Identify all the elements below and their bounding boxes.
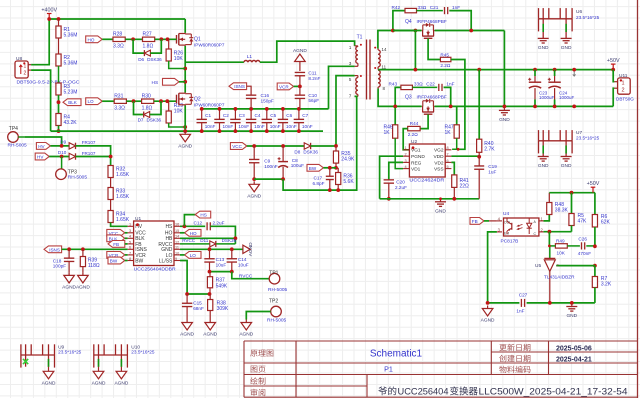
svg-text:RH-5005: RH-5005 [267, 317, 287, 323]
wire half-bridge node [184, 46, 186, 93]
junction TL431 ref row [593, 264, 597, 268]
svg-text:C6: C6 [286, 113, 292, 118]
svg-text:RH-5005: RH-5005 [68, 175, 88, 181]
svg-text:10nF: 10nF [286, 124, 297, 129]
svg-text:10uF: 10uF [238, 262, 249, 267]
svg-text:4: 4 [129, 235, 131, 239]
junction R46 top [394, 105, 397, 108]
svg-text:VD2: VD2 [434, 160, 444, 166]
svg-text:3.2K: 3.2K [601, 282, 612, 288]
capacitor C15 68nF [182, 294, 204, 320]
ground AGND (TP2) [239, 320, 253, 338]
svg-text:U2: U2 [411, 139, 417, 145]
junction diode outputs [109, 155, 113, 159]
svg-text:2: 2 [557, 264, 559, 268]
junction HB [234, 236, 238, 240]
junction VCR node [298, 85, 302, 89]
wire U8 pin 2 return [31, 70, 50, 131]
svg-text:+50V: +50V [607, 58, 620, 64]
wire Q2 source to rail [184, 106, 186, 132]
junction D7 cathode tap [159, 99, 163, 103]
connector U11 [614, 73, 634, 101]
heatsink U7 [539, 130, 600, 156]
svg-text:R27: R27 [143, 32, 152, 38]
junction VG2 node [457, 148, 460, 151]
svg-text:RH-5005: RH-5005 [268, 287, 288, 293]
junction VDD node [477, 155, 481, 159]
svg-text:1nF: 1nF [516, 309, 524, 314]
wire Q4 drain rail [393, 30, 422, 32]
diode D7 DSK36 [134, 101, 162, 122]
diode D10 FR107 [58, 150, 96, 160]
svg-text:VDD: VDD [433, 154, 444, 160]
svg-text:6.8pF: 6.8pF [313, 181, 325, 186]
svg-text:D8: D8 [294, 150, 300, 155]
wire U6 gnd ticks [543, 24, 566, 32]
svg-text:10nF: 10nF [205, 124, 216, 129]
snubber R42 C21 1nF [392, 5, 472, 31]
svg-text:HS: HS [165, 224, 173, 230]
svg-text:1000uF: 1000uF [539, 95, 555, 100]
junction R38 top [208, 292, 212, 296]
resistor R5 47K [569, 213, 587, 232]
svg-text:AGND: AGND [92, 380, 106, 386]
resistor R39 118 [80, 249, 100, 272]
svg-text:LO: LO [88, 99, 95, 104]
capacitor C27 1nF [516, 292, 527, 313]
svg-text:PGND: PGND [411, 154, 425, 160]
wire U4 EM to AGND [488, 232, 497, 303]
power flag +50V (output) [607, 58, 620, 71]
svg-text:U1: U1 [135, 216, 141, 222]
svg-text:AGND: AGND [293, 48, 307, 54]
junction C24 bottom [553, 105, 557, 109]
heatsink U9 [21, 344, 82, 367]
junction C22 right [449, 105, 453, 109]
svg-text:470nF: 470nF [578, 251, 591, 256]
junction center tap down [414, 68, 418, 72]
ground GND (U6 right) [561, 38, 572, 51]
svg-text:3: 3 [129, 229, 131, 233]
capacitor C14 10uF [227, 249, 249, 271]
svg-text:C20: C20 [396, 179, 405, 184]
svg-text:1.8Ω: 1.8Ω [142, 105, 153, 111]
svg-text:VCC: VCC [232, 144, 242, 149]
svg-text:FB: FB [472, 219, 478, 224]
net label VCR (tank) [277, 83, 300, 90]
resistor R44 2.2 [408, 121, 420, 137]
wire HO to R31 [102, 100, 114, 102]
svg-text:C21: C21 [430, 5, 439, 10]
op-amp U2 UCC24624DR [403, 139, 451, 183]
wire REG to C20 [389, 162, 403, 180]
svg-text:BW: BW [110, 259, 118, 264]
capacitor C12 2.2uF [194, 220, 225, 230]
junction C26 right [593, 244, 597, 248]
svg-text:23.5*16*25: 23.5*16*25 [58, 350, 82, 355]
svg-text:HO: HO [190, 231, 197, 236]
svg-text:C12: C12 [194, 220, 203, 225]
svg-text:14: 14 [175, 235, 179, 239]
svg-text:TP4: TP4 [9, 126, 18, 132]
resistor R47 1K [445, 106, 460, 149]
net label LO (U1) [180, 252, 201, 259]
wire U11 feed bottom [613, 88, 614, 106]
wire +400V to U8 pin 1 [31, 19, 49, 65]
wire C13-C14 bottom rail [210, 271, 232, 273]
capacitor C8 100uF [278, 146, 305, 179]
svg-text:2: 2 [24, 70, 27, 76]
title block label 更新日期 [499, 344, 530, 351]
wire Q4 gate to R45 [428, 39, 440, 60]
junction C9 bottom [252, 177, 256, 181]
svg-text:1000uF: 1000uF [559, 95, 575, 100]
svg-text:HV: HV [37, 155, 44, 160]
resistor R48 38.3K [547, 193, 569, 215]
svg-text:DSK36: DSK36 [222, 238, 237, 243]
resistor R1 [56, 19, 78, 54]
svg-text:R43: R43 [389, 82, 398, 87]
wire D10 cathode [76, 156, 111, 158]
junction C18 tap [67, 247, 71, 251]
svg-text:10nF: 10nF [238, 124, 249, 129]
diode D9 FR107 [60, 139, 96, 149]
wire +50V to R40 [478, 70, 480, 140]
resistor R37 549K [207, 272, 228, 294]
net label HS (bridge) [152, 78, 186, 86]
junction BLK tap [57, 100, 61, 104]
ground AGND (half-bridge) [178, 131, 192, 149]
svg-text:VSS: VSS [434, 167, 444, 173]
svg-text:6: 6 [129, 246, 131, 250]
junction C4 [249, 107, 253, 133]
junction R39 tap [81, 247, 85, 251]
svg-text:1: 1 [129, 223, 131, 227]
transistor Q4 IRFP4668PBF [405, 19, 447, 40]
svg-text:7: 7 [129, 251, 131, 255]
junction C9 top [252, 144, 256, 148]
wire R6 top [594, 193, 596, 215]
svg-text:GND: GND [538, 45, 549, 51]
svg-text:+400V: +400V [41, 8, 57, 14]
svg-text:R44: R44 [410, 121, 419, 126]
svg-text:RH-5005: RH-5005 [8, 143, 28, 149]
junction opto C [548, 230, 552, 234]
title block label 物料编码 [499, 366, 530, 373]
svg-text:15: 15 [175, 229, 179, 233]
resistor R33 [108, 188, 130, 201]
ground GND (U2) [435, 199, 446, 215]
svg-text:GND: GND [499, 117, 510, 123]
svg-text:2: 2 [622, 88, 625, 94]
resistor R28 3.3 [113, 32, 125, 50]
net label HO (gate row) [86, 98, 103, 105]
svg-text:T1: T1 [357, 34, 363, 40]
svg-text:8: 8 [129, 257, 131, 261]
wire VCC row [247, 145, 304, 147]
junction R26 top [166, 37, 170, 41]
junction C5 [265, 107, 269, 133]
inductor L1 [185, 41, 354, 62]
ground GND (rect) [499, 107, 510, 123]
svg-text:7: 7 [447, 153, 449, 157]
svg-text:1nF: 1nF [452, 5, 460, 10]
svg-text:LO: LO [190, 253, 197, 258]
junction Q2 source rail [183, 129, 187, 133]
ground GND (U7 right) [561, 157, 572, 170]
svg-text:AGND: AGND [481, 318, 495, 324]
wire R45 to VG2 [451, 60, 465, 150]
junction C21 right [469, 29, 473, 33]
junction C2 [218, 107, 222, 133]
svg-text:PC817B: PC817B [501, 238, 519, 244]
junction C14 top [230, 247, 234, 251]
capacitor C20 2.2uF [384, 179, 408, 199]
ground AGND (tank top) [293, 48, 307, 61]
svg-text:14: 14 [382, 47, 387, 52]
svg-text:1: 1 [622, 80, 625, 86]
wire R33-R34 [110, 200, 112, 211]
junction C23 top [533, 68, 537, 72]
svg-text:2025-04-21: 2025-04-21 [556, 356, 592, 363]
resistor R34 [108, 211, 130, 224]
wire cap bank top rail [202, 108, 329, 110]
wire U10 gnd ticks [99, 359, 122, 367]
svg-text:AGND: AGND [180, 332, 194, 338]
svg-text:D9: D9 [60, 139, 66, 144]
svg-text:R42: R42 [392, 5, 401, 10]
wire drain tap down [414, 31, 416, 70]
junction R35 bottom [334, 166, 338, 170]
junction R40 feed [477, 68, 481, 72]
title block main title [378, 386, 627, 397]
svg-text:R31: R31 [114, 94, 123, 100]
capacitor C5 10nF [262, 109, 281, 131]
capacitor C19 1uF [474, 157, 497, 199]
junction C24 top [553, 68, 557, 72]
svg-text:BW: BW [309, 166, 317, 171]
resistor R26 10K [166, 39, 185, 68]
resistor R40 2.7K [477, 139, 496, 157]
wire T1 pin14 up [378, 31, 416, 49]
junction R5 top [570, 191, 574, 195]
svg-text:D7: D7 [138, 118, 144, 123]
svg-text:10K: 10K [174, 109, 184, 115]
wire U7 gnd ticks [543, 146, 566, 154]
svg-text:C11: C11 [308, 71, 317, 76]
junction U2 gnd tick [439, 197, 442, 200]
svg-text:1.65K: 1.65K [116, 194, 130, 200]
junction D6 cathode tap [159, 37, 163, 41]
resistor R30 1.8 [142, 94, 154, 112]
net label VCR (U1) [107, 252, 128, 259]
wire TL431 ref [556, 265, 595, 267]
title block frame [244, 341, 638, 397]
connector U8 [15, 56, 80, 85]
net label HO (Q1 row) [86, 36, 103, 43]
svg-text:DSK36: DSK36 [147, 118, 162, 123]
junction C8 top [281, 144, 285, 148]
wire FB to U4 [484, 220, 497, 222]
svg-text:5: 5 [129, 240, 131, 244]
diode D11 DSK36 [180, 238, 237, 247]
svg-text:AGND: AGND [42, 380, 56, 386]
svg-text:RVCC: RVCC [182, 238, 196, 243]
op-amp U1 UCC256404DDBR [128, 216, 180, 272]
junction LL/SS node [185, 292, 189, 296]
resistor R35 24.9K [333, 146, 355, 168]
junction Q4 source GND [503, 105, 507, 109]
svg-text:ISNS: ISNS [234, 84, 245, 89]
svg-text:10: 10 [175, 251, 179, 255]
svg-text:2.2Ω: 2.2Ω [440, 63, 451, 68]
svg-text:10uF: 10uF [216, 262, 227, 267]
svg-text:56pF: 56pF [308, 98, 319, 103]
svg-text:1nF: 1nF [446, 82, 454, 87]
net label ISNS (U1) [44, 246, 62, 253]
net label ISNS (tank) [229, 83, 247, 90]
wire Q1 drain [184, 19, 186, 33]
svg-text:5.6K: 5.6K [343, 179, 354, 185]
svg-text:BLK: BLK [68, 100, 78, 105]
net label VCC (supply) [230, 143, 246, 150]
junction spare bottom [572, 105, 576, 109]
svg-text:RVCC: RVCC [239, 274, 253, 280]
svg-text:3.3Ω: 3.3Ω [113, 44, 124, 50]
svg-text:47K: 47K [578, 219, 588, 225]
svg-text:FR107: FR107 [82, 140, 96, 145]
svg-text:2: 2 [405, 153, 407, 157]
svg-text:TP2: TP2 [269, 299, 278, 305]
svg-text:GND: GND [561, 163, 572, 169]
wire HS pin [180, 225, 205, 227]
capacitor C11 8.2nF [295, 62, 321, 87]
svg-text:150pF: 150pF [261, 98, 274, 103]
wire T1 pin3 to cap bank [329, 66, 355, 109]
svg-text:43.2K: 43.2K [64, 120, 78, 126]
wire bottom return rail [51, 130, 323, 132]
junction C6 [281, 107, 285, 133]
svg-text:U11: U11 [619, 73, 628, 79]
svg-text:DSK36: DSK36 [303, 150, 318, 155]
svg-text:U5: U5 [535, 263, 541, 269]
svg-text:C15: C15 [193, 301, 202, 306]
capacitor C26 470nF [567, 237, 595, 256]
svg-text:C1: C1 [205, 113, 211, 118]
capacitor C18 100pF [53, 249, 75, 272]
svg-text:HS: HS [152, 80, 159, 86]
title block label 绘制 [250, 377, 265, 384]
svg-text:UCC256404: UCC256404 [398, 387, 449, 398]
svg-text:10nF: 10nF [254, 124, 265, 129]
wire R44 to VG1 [403, 129, 409, 150]
net label BLK (U1) [107, 235, 128, 242]
svg-text:FR107: FR107 [82, 151, 96, 156]
svg-text:118Ω: 118Ω [88, 263, 100, 269]
ground AGND (fb) [481, 306, 495, 324]
title block P1 [384, 365, 393, 374]
svg-text:2.2Ω: 2.2Ω [408, 132, 419, 137]
svg-text:D6: D6 [138, 57, 144, 62]
title block label 创建日期 [499, 355, 530, 362]
net label HS (U1) [195, 211, 211, 218]
svg-text:16: 16 [175, 223, 179, 227]
wire GND rail [435, 105, 614, 107]
resistor R49 10K [549, 238, 567, 255]
wire R32-R33 [110, 178, 112, 188]
svg-text:33Ω: 33Ω [414, 82, 423, 87]
title block label 审阅 [251, 389, 266, 396]
svg-text:22Ω: 22Ω [460, 184, 470, 190]
wire GND pin to AGND [180, 248, 243, 250]
svg-text:3.3Ω: 3.3Ω [114, 105, 125, 111]
capacitor C4 10nF [246, 109, 265, 131]
junction +400V rail [47, 17, 51, 21]
net label HV (D10) [35, 153, 49, 160]
wire comp branch down [548, 232, 550, 246]
net label FB (U1) [108, 241, 128, 248]
junction R26 bottom node [183, 67, 187, 71]
svg-text:TP3: TP3 [68, 169, 77, 175]
test point TP3 [56, 169, 88, 181]
resistor R46 1K [384, 106, 404, 168]
svg-text:23.5*16*25: 23.5*16*25 [131, 350, 155, 355]
capacitor C6 10nF [278, 109, 297, 131]
resistor R6 62K [592, 214, 610, 246]
wire C12 to HB [210, 226, 235, 244]
wire Q4 source rail [435, 30, 505, 32]
wire cap bank bottom rail segment [298, 130, 300, 132]
svg-text:HV: HV [38, 144, 45, 149]
svg-text:DBT50G-9.5-2P-BK-P-OGC: DBT50G-9.5-2P-BK-P-OGC [17, 80, 81, 85]
svg-text:DBT50G: DBT50G [616, 96, 634, 101]
wire +400V rail [49, 18, 185, 20]
resistor R31 3.3 [114, 94, 126, 112]
svg-text:8: 8 [447, 146, 449, 150]
svg-text:R28: R28 [113, 32, 122, 38]
wire R31-R30 [126, 100, 141, 102]
junction C13 top [208, 247, 212, 251]
junction R35 top [334, 144, 338, 148]
resistor R3 [56, 83, 78, 96]
wire PGND down [380, 156, 404, 199]
capacitor C1 10nF [197, 109, 216, 131]
svg-text:AGND: AGND [178, 143, 192, 149]
ground GND (fb) [566, 304, 577, 320]
wire Q4 source down to GND rail [503, 31, 505, 107]
svg-text:L1: L1 [247, 54, 253, 60]
title block label 图页 [251, 366, 266, 373]
junction C17 top [328, 166, 332, 170]
junction spare top [572, 68, 576, 77]
capacitor C13 10uF [204, 249, 226, 271]
svg-text:2025-05-06: 2025-05-06 [556, 345, 592, 352]
svg-text:IPW60R060P7: IPW60R060P7 [194, 102, 225, 107]
svg-text:AGND: AGND [248, 242, 254, 256]
svg-text:549K: 549K [216, 283, 228, 289]
diode D8 DSK36 [294, 143, 318, 155]
capacitor C24 1000uF [548, 70, 575, 107]
svg-text:+50V: +50V [587, 181, 600, 187]
svg-text:1.65K: 1.65K [116, 217, 130, 223]
svg-text:LL/SS: LL/SS [159, 258, 173, 264]
shunt reference U5 TL431 [535, 245, 575, 303]
net label HO (U1) [180, 229, 201, 236]
svg-text:10nF: 10nF [270, 124, 281, 129]
svg-text:IPW60R060P7: IPW60R060P7 [194, 42, 225, 47]
svg-text:C17: C17 [314, 176, 323, 181]
resistor R4 [56, 114, 77, 127]
